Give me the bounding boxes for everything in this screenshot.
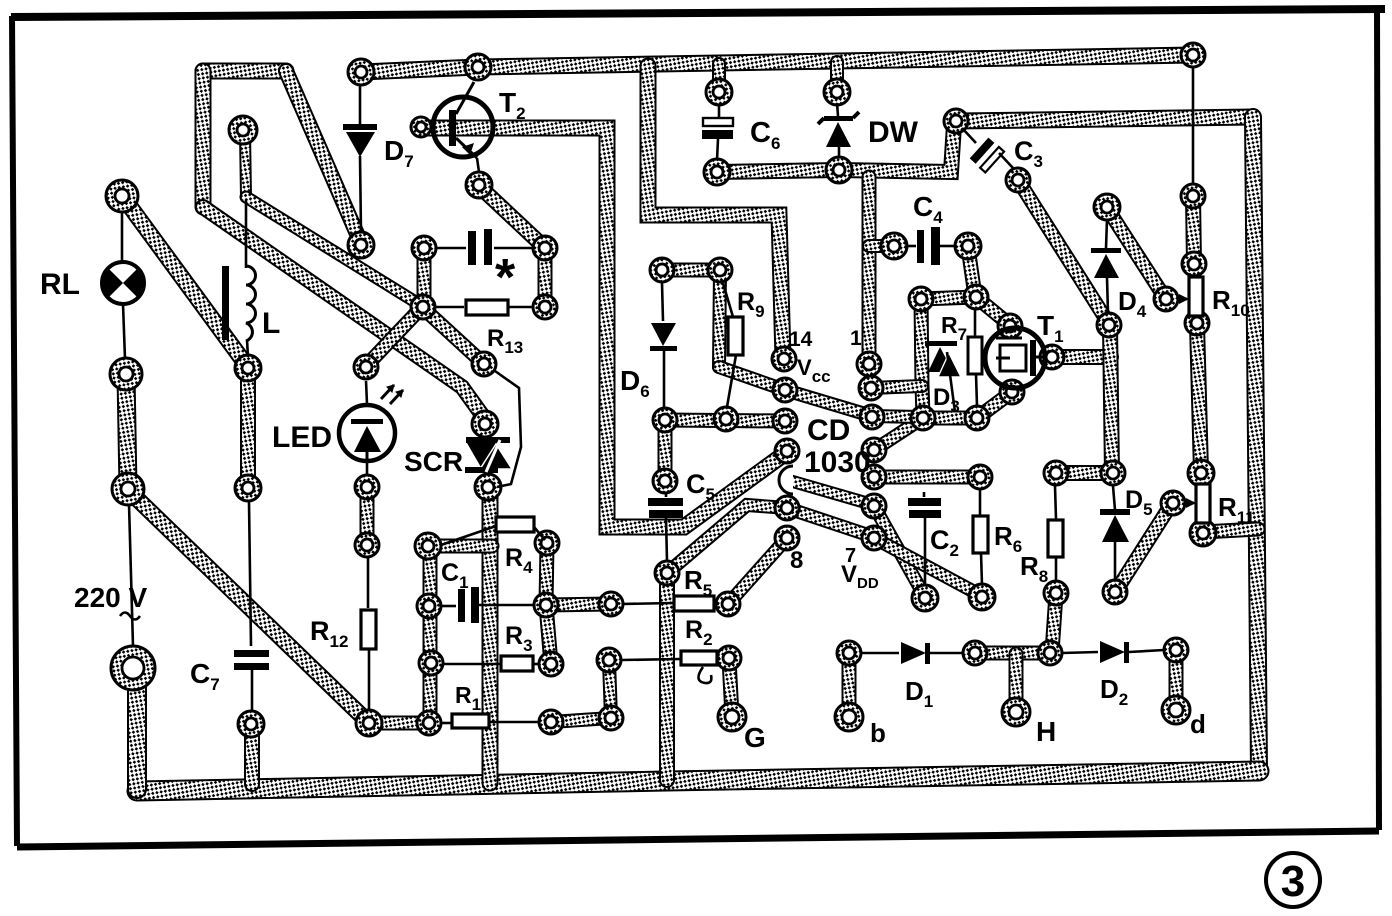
wire D5 bottom lead (1114, 540, 1117, 579)
pad D4 bottom (1097, 313, 1121, 337)
wire C5 stub (665, 493, 668, 497)
pad 220V terminal (111, 646, 155, 690)
wire C2 stub (923, 492, 926, 497)
pad G (718, 703, 746, 731)
pad R10 top (1181, 184, 1205, 208)
wire R2 right lead (717, 657, 720, 660)
pad C5 bottom (655, 561, 679, 585)
pad D6 top (650, 258, 674, 282)
wire R4 left stub (429, 539, 492, 554)
wire R6 diag (874, 538, 982, 596)
wire D1 right lead (930, 652, 963, 655)
wire L chain (240, 369, 256, 487)
resistor R10 (1189, 277, 1203, 316)
wire pentagon top (921, 297, 976, 299)
resistor R2 (681, 651, 717, 665)
pad R2 left (597, 648, 621, 672)
pad C6 top (706, 79, 732, 105)
wire R1 left lead (441, 722, 451, 725)
pad R13 TL (412, 236, 436, 260)
wire C1 right lead (479, 604, 534, 607)
pad R1 right (539, 710, 563, 734)
wire D4 bottom lead (1107, 278, 1108, 313)
wire polygon top edge (203, 63, 286, 80)
pad R11 top (1188, 460, 1214, 486)
pad R10 bottom (1185, 311, 1209, 335)
pad C5 top (653, 469, 677, 493)
wire polygon right leg to D7 (286, 71, 361, 243)
pad C4 right (955, 233, 981, 259)
inductor L core bar (222, 266, 229, 340)
pad d (1162, 696, 1190, 724)
pad pin1 (857, 352, 881, 376)
wire H bar (975, 646, 1050, 661)
wire pin9 to pin7 (787, 508, 874, 537)
wire R12 bottom lead (368, 649, 371, 711)
pad R1 left (417, 711, 441, 735)
wire polygon left vertical (195, 71, 212, 207)
wire D1 left lead (861, 652, 899, 655)
wire C7 bottom lead (251, 670, 254, 712)
pad pentagon TM (964, 285, 988, 309)
wire T2 emitter lead (477, 158, 479, 172)
pad R2 node (599, 706, 623, 730)
wire R6 top lead (979, 490, 982, 515)
inductor L coil (246, 266, 256, 341)
wire SCR cathode trace (482, 488, 499, 783)
wire R7 top lead (974, 310, 977, 337)
pad C4 left (881, 233, 907, 259)
pad pentagon TL (909, 287, 933, 311)
wire C6 stub (712, 64, 726, 91)
wire pin1 vertical (862, 177, 877, 363)
wire RL bottom lead (123, 304, 125, 359)
wire RL top lead (121, 212, 124, 262)
wire pin3 link (872, 416, 922, 417)
pad R9 top (708, 258, 732, 282)
svg-text:220 V: 220 V (74, 582, 147, 613)
resistor R9 (728, 317, 743, 355)
wire R13 to LED (366, 307, 422, 366)
wire R5 right lead (714, 603, 719, 604)
wire D4 diagonal (1107, 208, 1165, 298)
wire R8 bottom lead (1055, 557, 1058, 582)
pad H left (963, 641, 987, 665)
pad D7 bottom (348, 232, 374, 258)
lamp RL (102, 262, 145, 304)
pad gate node (472, 352, 496, 376)
wire LED chain (360, 488, 375, 544)
resistor R7 (968, 337, 982, 374)
transistor T1 (985, 328, 1046, 388)
pad D4 top (1094, 194, 1120, 220)
wire C3 left lead (962, 128, 976, 143)
pad R6 top (968, 465, 992, 489)
wire R6 bottom lead (981, 553, 982, 585)
wire D6 bottom lead (663, 351, 666, 407)
pad pin2 (859, 376, 883, 400)
resistor R4 (496, 517, 534, 532)
wire C1 left lead (441, 605, 456, 608)
pad C2 bottom (912, 585, 938, 611)
diode D6 (650, 323, 677, 351)
pad RL low (112, 473, 144, 505)
pad R13 BL (411, 295, 435, 319)
capacitor C-star (468, 229, 492, 265)
wire R10-R11 link (1197, 324, 1201, 472)
pad R12 bottom (356, 710, 382, 736)
wire C7 top lead (249, 502, 251, 646)
pad LED top (354, 355, 378, 379)
wire C* left lead (436, 247, 466, 250)
wire CD row pin12 (665, 420, 785, 421)
wire R1 link (551, 718, 611, 722)
thyristor SCR (465, 437, 512, 473)
wire R2 column (609, 661, 611, 718)
capacitor C3 (970, 138, 1004, 173)
wire R4 left lead (441, 526, 496, 545)
svg-text:3: 3 (1281, 857, 1305, 906)
pad T2 collector (465, 54, 491, 80)
wire C3 diagonal (1018, 180, 1109, 324)
svg-text:1: 1 (850, 327, 862, 350)
wire D4 top lead (1106, 219, 1107, 248)
svg-text:b: b (870, 718, 886, 748)
wire H stem (1009, 654, 1024, 711)
capacitor C5 (648, 498, 683, 518)
wire R9 bottom lead (727, 355, 736, 407)
resistor R6 (973, 516, 988, 553)
resistor R11 (1196, 484, 1210, 523)
wire T2 to R13 (479, 186, 544, 247)
wire pentagon tr diag (976, 297, 1010, 325)
wire DW bottom lead (838, 147, 841, 158)
pad T1 right (1040, 345, 1064, 369)
wire C5 link (658, 421, 673, 480)
wire R8 stem (1052, 594, 1056, 652)
wire RL diagonal (123, 197, 247, 366)
wire C4 right lead (940, 245, 956, 248)
wire R1 right lead (489, 721, 540, 724)
pad C1 left (417, 594, 441, 618)
pad T1 bottom (1000, 380, 1024, 404)
pad pin10 open (779, 466, 793, 494)
pad R3 right (539, 652, 563, 676)
wire top rail (361, 55, 1193, 72)
resistor R13 (466, 300, 508, 315)
svg-text:*: * (495, 249, 516, 307)
resistor R12 (361, 610, 376, 649)
capacitor C2 (908, 498, 941, 518)
svg-text:CD: CD (807, 414, 850, 447)
svg-text:8: 8 (790, 547, 803, 574)
wire R13 left lead (436, 306, 464, 309)
label 220V tilde (120, 613, 140, 620)
wire R9 top lead (723, 283, 733, 317)
wire C7 stub (244, 724, 260, 784)
diode D5 (1100, 509, 1130, 542)
wire R13 to gate pad (423, 308, 484, 364)
pad top right (1181, 43, 1205, 67)
svg-text:H: H (1036, 716, 1056, 747)
wire R12 top lead (367, 558, 370, 608)
svg-text:LED: LED (272, 421, 332, 454)
wire ground bus (137, 771, 1259, 791)
wire R9 column (719, 271, 720, 367)
wire R2 left lead (621, 659, 680, 660)
pad C7 bottom (238, 711, 264, 737)
hook mark (698, 667, 711, 683)
pad C6 bottom (704, 159, 730, 185)
wire C4 left stub (869, 239, 893, 253)
wire pin8 diag (729, 538, 787, 603)
pad R5 right (716, 592, 740, 616)
wire pin4 diag (874, 418, 923, 450)
diode D2 (1100, 641, 1129, 663)
wire pin5 row (874, 470, 980, 485)
pad R11 bottom (1190, 520, 1216, 546)
svg-text:1030: 1030 (804, 446, 871, 479)
pad D6 bottom (653, 408, 677, 432)
pad pin6 (862, 494, 886, 518)
pad R13 BR (533, 295, 557, 319)
wire 220V diagonal (128, 490, 369, 723)
svg-text:L: L (262, 307, 280, 340)
svg-text:G: G (744, 722, 766, 753)
wire b stem (842, 654, 857, 716)
wire R10 upper link (1193, 196, 1194, 264)
pad pin14 Vcc (772, 347, 796, 371)
diode D1 (901, 642, 930, 664)
pad pin7 (862, 526, 886, 550)
wire D7 top lead (359, 85, 362, 124)
wire top right rail (957, 117, 1253, 121)
svg-text:SCR: SCR (404, 446, 463, 477)
pad R10 wiper (1154, 287, 1178, 311)
pad C1 right (534, 593, 558, 617)
pad pin5 (862, 465, 886, 489)
pad R10 mid (1182, 252, 1206, 276)
pad R11 wiper (1161, 491, 1185, 515)
wire right loop vertical (1253, 117, 1259, 770)
wire T1 output (1052, 349, 1111, 365)
capacitor C4 (917, 227, 940, 265)
wire C6 top lead (718, 104, 721, 119)
wire C4 left lead (905, 245, 916, 248)
wire T1 vertical (1110, 326, 1112, 473)
svg-text:d: d (1190, 709, 1206, 739)
wire L bottom lead (247, 340, 248, 357)
wire pentagon left (921, 299, 923, 417)
wire Vcc branch (648, 66, 783, 358)
wire R9 loop (662, 263, 720, 278)
pad C7 top (235, 475, 261, 501)
pad pin8 (775, 526, 799, 550)
wire G stem (729, 659, 732, 716)
svg-text:DW: DW (868, 116, 919, 149)
wire 220V lead (129, 504, 133, 646)
pad pin3 (860, 405, 884, 429)
pad C3 right (1006, 168, 1030, 192)
pad pentagon BM (965, 406, 989, 430)
pad pentagon BL (911, 406, 935, 430)
pad T2 base (411, 117, 431, 137)
pad R6 bottom (969, 584, 995, 610)
wire pin13 diagonal (719, 367, 872, 416)
wire R3-R4 column (546, 544, 551, 664)
diode D4 (1091, 248, 1121, 278)
LED arrows (381, 385, 403, 404)
zener DW (818, 112, 859, 147)
wire R3 right lead (533, 663, 540, 666)
wire T1 bottom stub (1056, 465, 1112, 481)
wire d stem (1169, 651, 1184, 709)
pad R8 bottom (1044, 581, 1068, 605)
resistor R3 (501, 656, 533, 671)
resistor R5 (674, 596, 714, 611)
wire R3 left lead (443, 663, 500, 666)
wire pin10 jumper (791, 481, 874, 505)
pad R9 bottom (714, 407, 738, 431)
wire D7 bottom lead (360, 156, 361, 233)
wire R13 right side (538, 249, 553, 307)
pad b (835, 703, 863, 731)
capacitor C7 (234, 650, 269, 670)
wire C5 bottom lead (666, 518, 667, 561)
wire gate link (495, 371, 521, 487)
wire DW top lead (837, 103, 838, 116)
wire C1 column (423, 544, 438, 723)
pad L bottom (235, 355, 261, 381)
wire top right drop (1192, 67, 1195, 185)
pad H right (1038, 641, 1062, 665)
pad H (1002, 698, 1030, 726)
wire D5 diagonal (1116, 503, 1172, 591)
pad T1 top (998, 314, 1022, 338)
pad R13 TR (533, 236, 557, 260)
svg-text:RL: RL (40, 268, 80, 301)
wire RL chain (126, 375, 128, 488)
pad pin9 (775, 496, 799, 520)
transistor T2 (433, 82, 493, 158)
wire R13 right lead (508, 306, 533, 309)
pad D5 top (1101, 461, 1125, 485)
pad D5 bottom (1103, 580, 1127, 604)
pad RL top (106, 180, 138, 212)
pad R4 right (535, 531, 559, 555)
LED (339, 405, 395, 461)
pad pin13 (773, 378, 797, 402)
svg-text:14: 14 (789, 328, 813, 351)
wire D6 top lead (662, 283, 663, 321)
pad D7 top (348, 59, 374, 85)
wire C2 bottom lead (924, 518, 927, 586)
wire LED bottom lead (366, 461, 369, 476)
wire C2 diag (874, 506, 925, 597)
wire pentagon bottom (923, 411, 977, 426)
wire D2 right lead (1129, 650, 1164, 652)
wire LED top lead (366, 381, 367, 404)
pad LED low2 (355, 533, 379, 557)
pad pin11 (775, 439, 799, 463)
wire pentagon br diag (977, 392, 1012, 418)
pad pin4 (862, 438, 886, 462)
wire D5 top lead (1113, 486, 1115, 510)
pad LED low1 (355, 475, 379, 499)
capacitor C1 (458, 587, 479, 623)
pad b top (837, 641, 861, 665)
diode D3 (925, 341, 961, 412)
pad SCR cathode (475, 474, 501, 500)
wire C6 bottom lead (717, 139, 718, 160)
diode D7 (343, 124, 377, 157)
wire R7 bottom lead (976, 374, 977, 406)
wire C3 right lead (999, 153, 1013, 168)
wire T2 emitter rail (422, 128, 787, 527)
resistor R1 (452, 714, 489, 728)
pad R4 left (415, 533, 441, 559)
pad R5 left (599, 592, 623, 616)
pad C3 left (944, 109, 968, 133)
wire C4 right drop (968, 247, 975, 296)
wire C* right lead (494, 247, 533, 250)
pad DW top (824, 79, 850, 105)
resistor R8 (1048, 520, 1063, 557)
wire pin2 link (871, 386, 922, 388)
pad SCR anode (472, 411, 498, 437)
pad R2 right (717, 646, 741, 670)
pad L top (229, 116, 257, 144)
wire R5 stub (546, 604, 611, 605)
wire L top lead (245, 200, 248, 268)
figure number 3 (1266, 853, 1320, 907)
pad d top (1164, 638, 1188, 662)
wire DW stub (830, 62, 844, 91)
pad RL mid (110, 358, 142, 390)
R11 wiper arrow (1184, 498, 1196, 508)
wire R4 right lead (534, 527, 545, 540)
wire narrow vertical from L pad (245, 132, 246, 197)
wire R5 left lead (622, 603, 673, 604)
pad pin12 (773, 409, 797, 433)
wire diagonal to R13 corner (246, 197, 422, 306)
wire bottom row (369, 716, 430, 731)
R10 wiper arrow (1177, 294, 1189, 304)
wire R11 stub (1203, 529, 1258, 532)
wire R8 top lead (1055, 486, 1056, 519)
wire R13 left side (417, 249, 432, 307)
wire C5 ground trace (659, 574, 675, 780)
pad R3 left (419, 651, 443, 675)
wire DW bottom rail (717, 125, 954, 172)
wire pin9 fan (667, 505, 787, 573)
pad R8 top (1044, 461, 1068, 485)
capacitor C6 (702, 118, 733, 139)
wire D2 left lead (1062, 652, 1098, 653)
pad DW bottom (826, 157, 852, 183)
wire 220V feed (127, 669, 147, 789)
wire diagonal to SCR (203, 207, 485, 419)
pad T2 emitter (466, 172, 492, 198)
